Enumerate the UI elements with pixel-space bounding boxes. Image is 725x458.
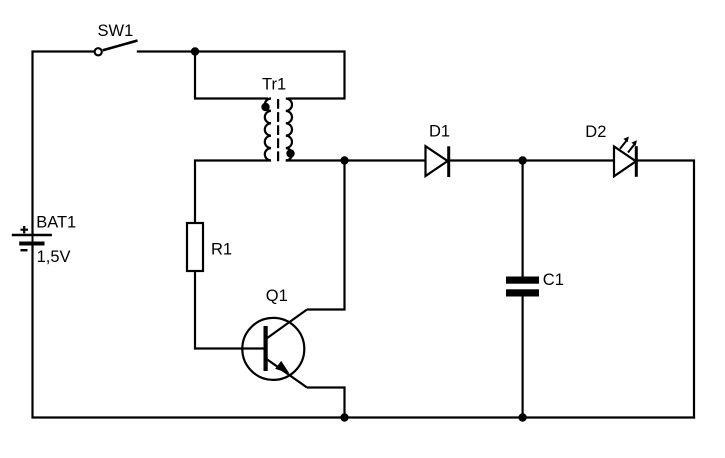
wire emitter to ground rail <box>307 388 345 418</box>
emitter line <box>267 359 308 388</box>
node B <box>340 156 348 164</box>
secondary polarity dot <box>286 149 294 157</box>
wire top rail from switch lever through node A, corner down to secondary top <box>137 52 345 99</box>
wire secondary bottom to D1 anode <box>286 159 426 161</box>
svg-text:Tr1: Tr1 <box>262 76 286 94</box>
wire node C down to C1 top plate <box>521 161 523 278</box>
diode D1 <box>426 123 451 178</box>
wire C1 bottom plate to ground rail <box>521 296 523 418</box>
capacitor C1 <box>506 271 564 297</box>
wire top rail from switch to battery and left rail down to battery plus <box>33 52 95 236</box>
core <box>277 99 279 162</box>
led arrow 2 <box>628 143 635 152</box>
resistor R1 <box>187 223 232 271</box>
transistor Q1 <box>242 287 307 388</box>
wire node B down to collector <box>307 161 345 310</box>
node E <box>518 413 526 421</box>
svg-text:D2: D2 <box>585 123 606 141</box>
LED D2 <box>585 123 637 177</box>
wire R1 bottom to Q1 base <box>195 271 264 349</box>
svg-text:C1: C1 <box>543 271 564 289</box>
wire node A down and over to primary top <box>195 52 268 99</box>
transformer Tr1 <box>261 76 294 163</box>
wire D2 cathode and right rail down <box>637 161 694 419</box>
led arrow 1 <box>620 140 627 149</box>
svg-text:BAT1: BAT1 <box>36 214 76 232</box>
node A <box>191 47 199 55</box>
wire D1 cathode through node C to D2 anode <box>449 159 614 161</box>
collector line <box>267 310 308 339</box>
emitter arrow <box>275 361 289 373</box>
switch SW1 <box>95 22 138 55</box>
wire primary bottom to R1 top <box>195 161 271 224</box>
primary winding <box>265 99 271 161</box>
battery BAT1 <box>12 214 76 267</box>
svg-text:R1: R1 <box>211 241 232 259</box>
wire battery minus down and ground rail <box>33 244 696 418</box>
svg-text:1,5V: 1,5V <box>37 248 71 266</box>
node D <box>340 413 348 421</box>
node C <box>518 156 526 164</box>
secondary winding <box>286 99 292 161</box>
svg-text:Q1: Q1 <box>266 287 288 305</box>
primary polarity dot <box>261 103 269 111</box>
svg-text:D1: D1 <box>429 123 450 141</box>
base bar <box>264 326 268 371</box>
svg-text:SW1: SW1 <box>98 22 134 40</box>
